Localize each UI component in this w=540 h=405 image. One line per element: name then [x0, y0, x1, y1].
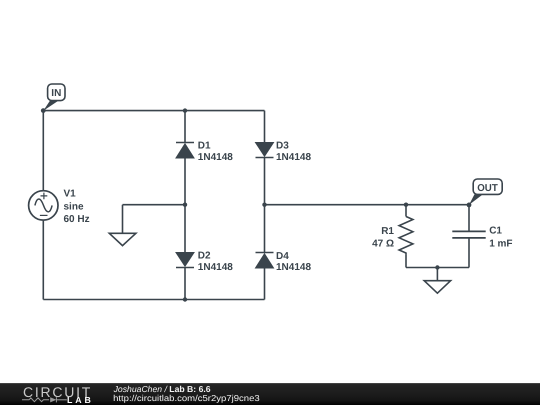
- svg-text:D4: D4: [276, 251, 289, 262]
- junction dot ground / RC bottom rail: [435, 265, 439, 269]
- label D1: [198, 141, 233, 163]
- wire V1 bottom lead: [42, 221, 44, 300]
- ground (right, below R1/C1): [424, 281, 450, 294]
- wire C1 top lead: [468, 205, 470, 231]
- footer title line: [113, 384, 211, 394]
- wire output rail (right branch to OUT node): [265, 204, 470, 206]
- label D4: [276, 251, 311, 273]
- wire right branch lower (D4 to bottom rail): [264, 268, 266, 300]
- svg-text:http://circuitlab.com/c5r2yp7j: http://circuitlab.com/c5r2yp7j9cne3: [113, 393, 260, 403]
- wire left branch lower (D2 to bottom rail): [184, 268, 186, 300]
- junction dot top rail / left branch: [183, 108, 187, 112]
- capacitor C1: [452, 231, 485, 238]
- label D3: [276, 141, 311, 163]
- junction dot R1 top: [404, 203, 408, 207]
- svg-text:D2: D2: [198, 251, 211, 262]
- footer CircuitLab logo text LAB: [67, 395, 94, 405]
- wire R1 bottom lead: [405, 255, 407, 268]
- svg-text:V1: V1: [64, 189, 77, 200]
- svg-text:47 Ω: 47 Ω: [372, 239, 394, 250]
- svg-text:IN: IN: [51, 88, 61, 99]
- wire R1 top lead: [405, 205, 407, 217]
- footer url line: [113, 393, 260, 403]
- wire left branch upper (top rail to D1): [184, 111, 186, 143]
- svg-text:60 Hz: 60 Hz: [64, 214, 90, 225]
- svg-text:sine: sine: [64, 202, 84, 213]
- junction dot bottom rail / left branch: [183, 297, 187, 301]
- svg-text:R1: R1: [381, 226, 394, 237]
- node IN dot: [41, 108, 46, 113]
- svg-text:1N4148: 1N4148: [198, 262, 233, 273]
- diode D3: [256, 143, 274, 158]
- svg-text:OUT: OUT: [477, 183, 498, 194]
- footer bar: [0, 383, 540, 405]
- svg-text:C1: C1: [489, 226, 502, 237]
- label D2: [198, 251, 233, 273]
- ground (left, at V1 mid node): [109, 233, 136, 245]
- junction dot mid rail / right branch: [262, 203, 266, 207]
- label C1 value: [489, 226, 512, 250]
- diode D2: [176, 253, 194, 268]
- svg-text:1 mF: 1 mF: [489, 239, 512, 250]
- wire bottom rail: [43, 299, 264, 301]
- diode D1: [176, 143, 194, 159]
- wire right ground stem: [436, 268, 438, 281]
- diode D4: [256, 253, 274, 269]
- wire right branch upper (top rail to D3): [264, 111, 266, 143]
- node OUT flag: [469, 179, 502, 205]
- svg-text:D1: D1: [198, 141, 211, 152]
- wire mid-left ground to left branch: [123, 205, 186, 234]
- svg-text:1N4148: 1N4148: [198, 152, 233, 163]
- node OUT dot: [467, 203, 472, 208]
- label V1 value: [64, 189, 90, 226]
- label R1 value: [372, 226, 394, 250]
- wire right branch middle (D3 to D4): [264, 158, 266, 253]
- footer CircuitLab logo text CIRCUIT: [23, 384, 91, 400]
- wire left branch middle (D1 to D2): [184, 158, 186, 253]
- resistor R1: [399, 217, 413, 255]
- svg-text:1N4148: 1N4148: [276, 262, 311, 273]
- svg-text:1N4148: 1N4148: [276, 152, 311, 163]
- wire C1 bottom lead: [468, 238, 470, 267]
- voltage source V1: [29, 191, 58, 220]
- wire V1 top lead: [42, 111, 44, 190]
- wire top rail IN to right branch: [43, 110, 264, 112]
- node IN flag: [43, 84, 65, 111]
- svg-text:LAB: LAB: [67, 395, 94, 405]
- footer CircuitLab logo schematic glyph: [22, 397, 67, 402]
- wire RC bottom rail: [406, 267, 469, 269]
- junction dot mid rail / left branch: [183, 203, 187, 207]
- svg-text:D3: D3: [276, 141, 289, 152]
